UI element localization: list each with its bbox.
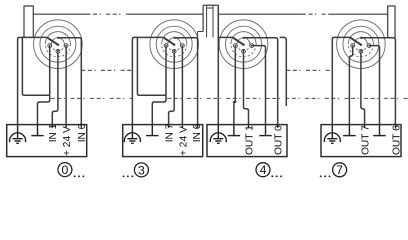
svg-text:7: 7 <box>336 163 343 177</box>
svg-text:3: 3 <box>138 163 145 177</box>
svg-text:4: 4 <box>260 163 267 177</box>
svg-text:IN 7: IN 7 <box>165 123 176 142</box>
svg-text:OUT 6: OUT 6 <box>391 125 402 155</box>
svg-text:OUT 7: OUT 7 <box>361 125 372 155</box>
svg-text:+ 24 V: + 24 V <box>62 126 73 156</box>
svg-text:IN 1: IN 1 <box>48 123 59 142</box>
svg-text:0: 0 <box>61 163 68 177</box>
svg-text:OUT 0: OUT 0 <box>274 125 285 155</box>
svg-text:IN 6: IN 6 <box>192 123 203 142</box>
svg-text:OUT 1: OUT 1 <box>244 125 255 155</box>
svg-text:+ 24 V: + 24 V <box>178 126 189 156</box>
svg-text:IN 0: IN 0 <box>77 123 88 142</box>
